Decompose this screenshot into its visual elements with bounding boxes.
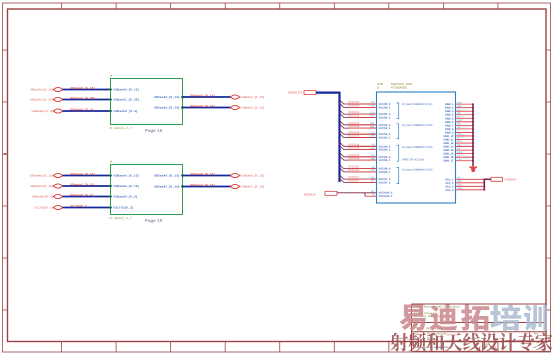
svg-text:IOBank5_[0..15]: IOBank5_[0..15] [114,184,140,188]
pin VCCO7_0 [379,178,391,181]
pin VCCO3_1 [379,137,391,140]
svg-text:I8: I8 [110,161,113,164]
pin VCCO6_0 [379,168,391,171]
pin IOBankX_[0..4] [109,109,138,113]
wire GND_16 to ground trunk [456,154,474,158]
svg-text:Page 19: Page 19 [145,218,163,223]
svg-text:IOBank3_[0..15]: IOBank3_[0..15] [190,104,215,108]
svg-text:GND_17: GND_17 [443,160,454,163]
wire VCCIO trunk [316,92,340,182]
pin GND_17 [443,160,454,163]
pin VCCO0_0 [379,103,391,106]
svg-text:F10: F10 [370,115,375,118]
svg-text:VCCO6_1: VCCO6_1 [379,171,391,174]
wire GND_12 to ground trunk [456,140,474,144]
svg-text:VCCIO0: VCCIO0 [348,104,360,107]
svg-text:33: 33 [533,346,536,349]
svg-text:IOBank7_[0..15]: IOBank7_[0..15] [190,183,215,187]
svg-text:IOBank6_[0..15]: IOBank6_[0..15] [154,174,180,178]
svg-text:IOBank0,[0..15]: IOBank0,[0..15] [30,89,53,92]
wire GND_15 to ground trunk [456,151,474,155]
pin VCC_2 [445,182,454,185]
svg-text:VCCIO_3.3: VCCIO_3.3 [288,91,303,95]
hierarchical block IO_BANK_4_7 (Page 19) [109,161,183,224]
svg-text:VCCO0_1: VCCO0_1 [379,106,391,109]
bus wire IOBank6 [63,193,111,197]
svg-text:IO_bank COMMON VCCIO: IO_bank COMMON VCCIO [402,103,432,106]
svg-text:IOBank4,[0..15]: IOBank4,[0..15] [30,175,53,178]
wire GND_4 to ground trunk [456,112,474,116]
wire VCCIO4 branch to VCCO4_1 [340,145,377,149]
pin GND_8 [445,128,454,131]
pin IOBank0_[0..15] [109,88,139,92]
wire VCCIO5 branch to VCCO5_1 [340,156,377,160]
off-page connector IOBank4 (left) [30,173,62,177]
svg-text:IOBank6,[0..4]: IOBank6,[0..4] [32,196,53,199]
wire VCC_1 [456,177,486,181]
off-page connector IOBankX (left) [32,109,63,113]
svg-text:D:: D: [377,86,380,90]
pin VCCO6_1 [379,171,391,174]
svg-text:IOBank5,[0..15]: IOBank5,[0..15] [30,185,53,188]
svg-text:E5: E5 [457,115,461,118]
pin VCCAUX_0 [379,192,393,195]
power port VCCAUX [304,191,337,196]
pin GND_13 [443,146,454,149]
pin GND_10 [443,135,454,138]
power port VCCINT [491,177,516,181]
svg-text:IOBankX,[0..4]: IOBankX,[0..4] [32,110,53,113]
pin GND_16 [443,156,454,159]
pin IOBank3_[0..15] [154,106,184,110]
svg-text:IOBank1,[0..30]: IOBank1,[0..30] [30,99,53,102]
svg-text:IOLTX0E_2: IOLTX0E_2 [70,204,87,208]
svg-text:VCCO5_1: VCCO5_1 [379,159,391,162]
svg-text:R11: R11 [370,125,375,128]
watermark slogan line 2 [390,333,552,352]
svg-text:IO_bank COMMON VCCIO: IO_bank COMMON VCCIO [402,124,432,127]
wire VCC_2 [456,180,486,184]
wire GND_9 to ground trunk [456,130,474,134]
svg-text:IOBank3_[0..15]: IOBank3_[0..15] [154,106,180,110]
wire ground trunk [472,104,474,166]
svg-text:GND_3: GND_3 [445,110,454,113]
svg-text:IOBank6_[0..15]: IOBank6_[0..15] [241,175,265,178]
svg-text:R9: R9 [371,135,375,138]
pin IOLTX2[0..3] [109,206,134,210]
svg-text:VCC_4: VCC_4 [445,189,454,192]
pin VCCO7_1 [379,181,391,184]
svg-text:G10: G10 [457,187,462,190]
wire GND_10 to ground trunk [456,133,474,137]
pin IOBank7_[0..15] [154,185,184,189]
IC part U4B Mach5V5_T256 body [377,82,456,203]
svg-text:VCCIO6: VCCIO6 [348,169,360,172]
pin GND_5 [445,117,454,120]
svg-text:IOBank6_[0..15]: IOBank6_[0..15] [190,172,215,176]
wire VCCIO2 branch to VCCO2_0 [340,121,377,125]
pin IOBank2_[0..15] [154,95,184,99]
svg-text:IOBankX_[0..4]: IOBankX_[0..4] [114,109,138,113]
wire GND_3 to ground trunk [456,108,474,112]
wire VCCAUX [337,190,377,196]
svg-text:VCCO1_1: VCCO1_1 [379,116,391,119]
bus wire IOBankX [63,107,111,111]
pin IOBank6_[0..15] [154,174,184,178]
off-page connector IOLTX2[0..3] (left) [35,205,63,209]
svg-text:IOBank0_[0..15]: IOBank0_[0..15] [70,86,95,90]
svg-text:IOBank4_[0..15]: IOBank4_[0..15] [114,174,140,178]
pin VCCO3_0 [379,133,391,136]
pin GND_4 [445,114,454,117]
svg-text:T12: T12 [457,158,462,161]
wire GND_7 to ground trunk [456,123,474,127]
off-page connector IOBank5 (left) [30,184,62,188]
pin VCCO1_0 [379,113,391,116]
wire VCCIO0 branch to VCCO0_0 [340,100,377,104]
svg-text:GND_10: GND_10 [443,135,454,138]
svg-text:GND_7: GND_7 [445,124,454,127]
svg-text:GND_5: GND_5 [445,117,454,120]
svg-text:VCCIO4: VCCIO4 [348,147,360,150]
pin VCCO0_1 [379,106,391,109]
pin GND_1 [445,103,454,106]
wire VCCIO6 branch to VCCO6_0 [340,164,377,168]
pin GND_11 [444,139,455,142]
svg-text:FT256A256: FT256A256 [391,86,407,90]
svg-text:IOBank1_[0..30]: IOBank1_[0..30] [114,98,140,102]
svg-text:VCCIO1: VCCIO1 [348,114,360,117]
pin VCCO5_1 [379,159,391,162]
svg-text:IOLTX2[0..3]: IOLTX2[0..3] [35,207,53,210]
pin VCCO2_1 [379,127,391,130]
wire GND_8 to ground trunk [456,126,474,130]
bus wire IOBank6 [183,172,231,176]
wire VCCIO6 branch to VCCO6_1 [340,168,377,172]
wire VCCIO4 branch to VCCO4_0 [340,142,377,146]
pin GND_2 [445,107,454,110]
wire VCCIO7 branch to VCCO7_1 [340,178,377,182]
svg-text:GND_14: GND_14 [443,149,454,152]
wire VCC_4 [456,187,486,191]
pin VCCO4_1 [379,149,391,152]
wire GND_14 to ground trunk [456,147,474,151]
svg-text:IOBank6_[0..4]: IOBank6_[0..4] [70,193,93,197]
svg-text:IOBank5_[0..15]: IOBank5_[0..15] [70,182,95,186]
bus wire IOBank2 [183,93,231,97]
svg-text:P4: P4 [457,147,461,150]
pin VCCAUX_1 [379,195,393,198]
wire VCC_3 [456,184,486,188]
wire VCCIO2 branch to VCCO2_1 [340,124,377,128]
svg-text:VCCIO3: VCCIO3 [348,135,360,138]
svg-text:Page 18: Page 18 [145,128,163,133]
pin VCCO5_0 [379,156,391,159]
svg-text:IOBank2_[0..15]: IOBank2_[0..15] [190,93,215,97]
svg-text:VCCO4_1: VCCO4_1 [379,149,391,152]
wire GND_2 to ground trunk [456,105,474,109]
svg-text:Rev: Rev [534,333,539,336]
pin GND_12 [443,142,454,145]
svg-text:VCCIO5: VCCIO5 [348,157,360,160]
svg-text:L10: L10 [370,147,375,150]
pin GND_7 [445,124,454,127]
ground symbol [469,167,478,173]
svg-text:IO_bank COMMON VCCIO: IO_bank COMMON VCCIO [402,169,432,172]
wire VCCIO1 branch to VCCO1_0 [340,110,377,114]
svg-text:IOBank6_[0..4]: IOBank6_[0..4] [114,195,138,199]
svg-text:+VCCINT: +VCCINT [504,178,516,182]
pin VCCO1_1 [379,116,391,119]
svg-text:IOLTX2[0..3]: IOLTX2[0..3] [114,206,134,210]
svg-text:B11: B11 [457,105,462,108]
off-page connector IOBank6 (left) [32,194,63,198]
off-page connector IOBank0 (left) [30,87,62,91]
svg-text:VCCO2_1: VCCO2_1 [379,127,391,130]
svg-text:IO_BANK_4_7: IO_BANK_4_7 [109,217,132,220]
off-page connector IOBank6 (right) [230,173,264,177]
pin VCCO2_0 [379,124,391,127]
comment texts inside part [402,103,432,172]
svg-text:IOBank0_[0..15]: IOBank0_[0..15] [114,88,140,92]
wire VCCIO3 branch to VCCO3_0 [340,130,377,134]
svg-text:I4: I4 [110,75,113,78]
svg-text:C6: C6 [371,169,375,172]
wire VCCIO0 branch to VCCO0_1 [340,103,377,107]
svg-text:M6: M6 [371,157,375,160]
wire GND_17 to ground trunk [456,158,474,162]
hierarchical block IO_BANK_2_3 (Page 18) [109,75,183,134]
off-page connector IOBank3 (right) [230,105,264,109]
pin group brackets [397,103,399,184]
bus wire IOBank7 [183,183,231,187]
svg-text:A9: A9 [371,105,375,108]
pin GND_14 [443,149,454,152]
svg-text:VCCO3_1: VCCO3_1 [379,137,391,140]
svg-text:IOBank1_[0..30]: IOBank1_[0..30] [70,96,95,100]
pin VCC_3 [445,185,454,188]
wire GND_1 to ground trunk [456,101,474,105]
svg-text:IOBankX_[0..4]: IOBankX_[0..4] [70,107,93,111]
off-page connector IOBank7 (right) [230,184,264,188]
wire VCCIO3 branch to VCCO3_1 [340,133,377,137]
pin VCC_4 [445,189,454,192]
svg-text:VREF OR VCCION: VREF OR VCCION [402,158,424,161]
pin VCC_1 [445,178,454,181]
wire GND_6 to ground trunk [456,119,474,123]
wire GND_11 to ground trunk [456,137,474,141]
bus wire IOBank4 [63,172,111,176]
svg-text:B5: B5 [371,180,375,183]
wire VCC trunk [484,179,491,190]
bus wire IOBank5 [63,182,111,186]
title block [412,304,551,351]
power port VCCIO_3.3 [288,91,316,95]
off-page connector IOBank2 (right) [230,95,264,99]
pin GND_9 [445,131,454,134]
bus wire IOBank3 [183,104,231,108]
svg-text:IO_BANK_2_3: IO_BANK_2_3 [109,127,132,130]
svg-text:IOBank2_[0..15]: IOBank2_[0..15] [154,95,180,99]
watermark logo line 1 [399,305,547,331]
off-page connector IOBank1 (left) [30,97,62,101]
svg-text:GND_12: GND_12 [443,142,454,145]
bus wire IOBank0 [63,86,111,90]
svg-text:VCCIO2: VCCIO2 [348,125,360,128]
svg-text:VCCAUX: VCCAUX [304,192,316,196]
svg-text:IO_bank COMMON VCCIO: IO_bank COMMON VCCIO [402,146,432,149]
svg-text:IOBank4_[0..15]: IOBank4_[0..15] [70,172,95,176]
pin IOBank1_[0..30] [109,98,139,102]
svg-text:VCCO7_1: VCCO7_1 [379,181,391,184]
wire GND_5 to ground trunk [456,115,474,119]
svg-text:G8: G8 [457,123,461,126]
svg-text:IOBank3_[0..15]: IOBank3_[0..15] [241,107,265,110]
bus wire IOLTX2[0..3] [63,204,111,208]
pin VCCO4_0 [379,145,391,148]
svg-text:VCCIO7: VCCIO7 [348,179,360,182]
wire VCCIO7 branch to VCCO7_0 [340,175,377,179]
pin IOBank5_[0..15] [109,184,139,188]
wire GND_13 to ground trunk [456,144,474,148]
svg-text:IOBank7_[0..15]: IOBank7_[0..15] [154,185,180,189]
svg-text:IOBank7_[0..15]: IOBank7_[0..15] [241,186,265,189]
svg-text:VCCAUX_1: VCCAUX_1 [379,195,393,198]
pin GND_15 [443,153,454,156]
wire VCCIO5 branch to VCCO5_0 [340,153,377,157]
wire VCCIO1 branch to VCCO1_1 [340,113,377,117]
bus wire IOBank1 [63,96,111,100]
pin IOBank6_[0..4] [109,195,137,199]
pin GND_6 [445,121,454,124]
svg-text:IOBank2_[0..15]: IOBank2_[0..15] [241,96,265,99]
pin IOBank4_[0..15] [109,174,139,178]
pin GND_3 [445,110,454,113]
